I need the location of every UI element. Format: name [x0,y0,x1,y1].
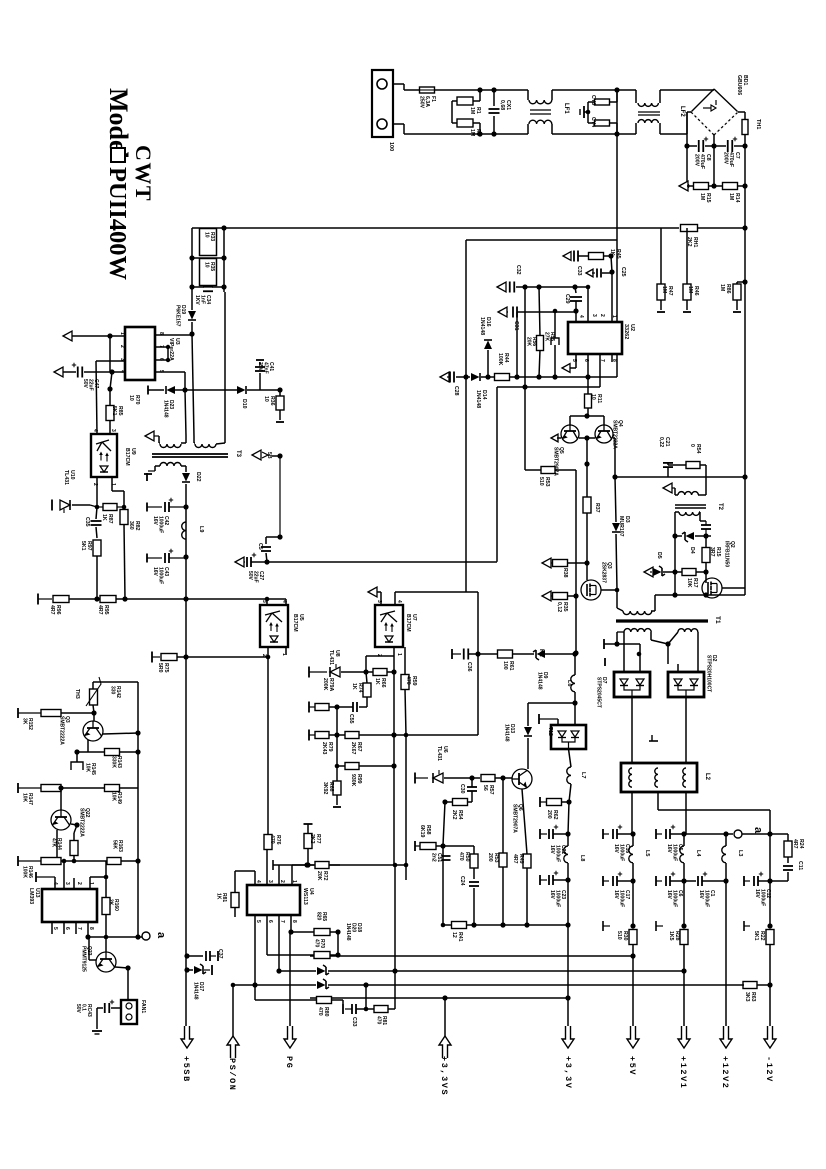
junction [584,461,589,466]
junction [684,183,689,188]
resistor R22 5K1 [766,930,774,945]
svg-text:1: 1 [281,653,287,656]
wire [77,751,105,753]
terminal U6 [414,773,416,784]
wire [526,868,528,925]
wire +5VSB down [185,599,187,1026]
wire U7 pin3 [380,592,382,605]
svg-text:L9: L9 [198,526,204,532]
arrow Q5 emitter [551,434,558,442]
wire [342,1000,344,1004]
wire [553,833,568,835]
resistor R17 10K [682,569,696,576]
wire [451,101,453,123]
wire [557,719,559,725]
transistor Q4 SMBT2222A [595,425,613,443]
capacitor C22 1000uF 16V [548,829,550,839]
svg-text:-12V: -12V [764,1056,774,1083]
wire +5V column [631,792,633,834]
capacitor C33 [573,251,575,262]
wire [539,286,588,288]
junction [166,345,170,349]
capacitor C24 [469,881,479,883]
diode D22 [182,473,190,482]
junction [74,822,79,827]
wire [394,865,396,971]
junction [742,279,747,284]
wire [616,590,618,608]
terminal R96 [37,594,39,605]
wire connector bottom pin [393,123,404,125]
junction [125,965,130,970]
wire [124,524,125,599]
ground earth AC filter [584,111,588,113]
wire U13 pin2 [73,878,75,889]
wire [468,653,478,655]
capacitor C7 470uF 200V [727,140,729,152]
inductor L2 winding 3 [683,768,686,787]
junction [392,968,397,973]
capacitor CX1 [489,108,500,110]
junction [573,308,578,313]
svg-text:U9B17CM: U9B17CM [124,448,136,466]
wire [604,255,611,257]
svg-text:R811K: R811K [215,893,227,902]
svg-text:R741K: R741K [351,683,363,693]
diode D16 1N4148 [484,340,492,349]
wire Q6 base [495,777,512,779]
diode D13 1N4148 [527,703,529,726]
diode D23 1N4148 [166,386,175,394]
wire [683,971,685,1026]
wire [72,504,90,506]
junction [304,862,309,867]
wire [185,466,187,472]
junction [221,225,226,230]
wire [551,90,553,100]
wire [93,681,138,683]
svg-text:R14510K: R14510K [84,763,96,775]
resistor R45 1K [589,253,604,260]
svg-text:6: 6 [267,920,273,923]
junction [58,785,63,790]
wire Q3 collector [87,740,89,752]
resistor R46 1M [683,284,691,300]
wire [575,596,577,653]
svg-text:R540: R540 [689,444,701,454]
svg-text:L6: L6 [566,680,572,686]
svg-text:R79A200K: R79A200K [322,678,334,692]
wire [223,228,225,292]
svg-text:LF1: LF1 [563,103,569,114]
svg-text:R855K1: R855K1 [111,406,123,416]
wire [187,969,193,971]
inductor LF1 top winding [529,100,552,104]
junction [183,654,188,659]
wire [769,944,771,985]
wire [359,734,395,736]
svg-text:+5V: +5V [627,1056,637,1076]
capacitor C5 [261,546,271,548]
junction [221,284,226,289]
wire [734,145,745,147]
junction [404,733,409,738]
wire U2 pin1 column [611,256,612,272]
resistor R74 1K [363,683,371,697]
wire [769,834,771,881]
wire [787,857,789,863]
wire [148,389,164,391]
junction [135,934,140,939]
svg-text:R871K: R871K [101,514,113,524]
wire [212,286,224,288]
resistor R57 56 [481,775,495,782]
wire B+ to bulk caps [744,135,746,146]
junction [522,384,527,389]
wire [186,598,267,600]
svg-text:L5: L5 [644,850,650,856]
wire [96,507,97,519]
junction [681,968,686,973]
wire [177,656,268,658]
wire [393,735,395,865]
junction [107,386,112,391]
transistor Q23 PMMT9125 [96,952,116,972]
wire [337,765,345,767]
terminal R62 [539,797,541,807]
resistor R76 470 [264,835,272,850]
svg-text:C171000uF16V: C171000uF16V [613,890,630,907]
resistor R11 10 [585,394,592,408]
junction [524,922,529,927]
wire [567,925,569,998]
wire [686,112,688,134]
junction [277,387,282,392]
wire [488,376,495,378]
svg-text:U4WS113: U4WS113 [302,888,314,905]
svg-text:C55: C55 [348,714,354,724]
wire [588,101,595,103]
capacitor C12 1000uF 16V [753,876,755,886]
wire U2 pin3 [587,287,589,322]
terminal C23 [539,875,541,885]
wire [614,438,616,477]
wire Q23 emitter [115,967,128,968]
junction [221,255,226,260]
capacitor C11 [783,865,793,867]
junction [391,763,396,768]
resistor R14 1M [723,183,738,190]
svg-text:100: 100 [388,142,394,151]
svg-text:R586K19: R586K19 [419,825,431,838]
wire [93,705,94,713]
wire U5 pin2 [267,646,269,657]
wire Q4 to rail [613,437,615,439]
svg-text:D19P6KE157: D19P6KE157 [174,305,186,327]
svg-text:CY3: CY3 [590,95,596,105]
resistor R1 [457,97,473,105]
svg-text:1: 1 [110,483,116,486]
wire +3,3V column [568,802,569,834]
svg-text:L4: L4 [695,850,701,857]
svg-text:D131N4148: D131N4148 [503,724,515,742]
wire gate drive [586,513,588,563]
svg-text:R153R7: R153R7 [709,547,721,557]
junction [672,533,677,538]
junction [442,995,447,1000]
resistor R56 20K [537,336,544,351]
wire [674,512,676,536]
wire U13 pin4 [54,877,56,889]
svg-text:U233262: U233262 [623,324,635,339]
inductor L8 [564,846,568,863]
wire U4 pin2 [278,865,280,885]
svg-text:R146100K: R146100K [21,866,33,878]
wire [568,562,587,564]
resistor R82 360 [120,510,128,525]
wire [478,653,497,655]
inductor L2 winding 1 [629,768,632,787]
wire [686,146,688,186]
svg-text:D2STPS20H100CT: D2STPS20H100CT [705,655,717,692]
svg-text:R542K2: R542K2 [451,810,463,820]
inductor LF2 bottom winding [638,120,658,123]
wire [623,632,625,672]
wire [61,712,94,714]
op-amp U10 TL431 [60,500,70,513]
svg-text:PG: PG [284,1056,294,1069]
svg-text:R76470: R76470 [269,835,281,845]
svg-text:R142330: R142330 [109,686,121,698]
wire [105,861,107,877]
junction [553,309,558,314]
wire [742,833,770,835]
capacitor C36 [463,649,465,660]
wire U13 pin1 [89,877,91,889]
junction [711,143,716,148]
capacitor C35 [91,520,102,522]
wire Q23 collector [88,937,90,960]
wire [436,845,443,847]
wire [738,185,745,187]
power PS/ON input [227,1036,239,1058]
wire B+ distribution [224,227,679,229]
wire [443,845,474,847]
ground arrow C27 [235,557,244,567]
svg-text:C8470uF200V: C8470uF200V [693,154,711,169]
wire [110,372,112,389]
wire Q2 gate [705,572,707,583]
transistor Q22 SMBT2222A [51,810,71,830]
wire U9 pin2 [96,477,98,507]
junction [630,923,635,928]
wire Vcc to U2 pin7 [497,386,600,388]
core LF2 [638,111,660,113]
svg-text:R21M: R21M [469,129,481,136]
wire [674,572,676,595]
junction [703,592,708,597]
ground tick R22 [743,921,745,931]
resistor R80 470 [317,997,332,1004]
junction [265,597,270,602]
wire to CX1 [493,90,495,106]
junction [584,435,589,440]
wire U9 pin3 [109,420,111,434]
wire Q3 base [93,713,95,721]
wire D7 to L2 [631,697,633,763]
svg-text:L8: L8 [579,855,585,861]
junction [107,333,112,338]
wire Q23 base [105,937,107,952]
junction [266,655,271,660]
junction [672,592,677,597]
junction [630,831,635,836]
transistor Q3 2SK2837 [581,580,601,600]
wire [569,416,571,425]
svg-text:R44100K: R44100K [497,353,509,366]
wire [119,751,138,753]
wire [472,777,480,779]
capacitor C5 1000uF 16V [665,829,667,839]
wire Q2 drain to B+ [722,587,745,589]
junction [334,704,339,709]
junction [586,110,591,115]
wire [366,672,367,683]
wire [330,954,338,956]
svg-text:U13LM393: U13LM393 [28,888,40,904]
wire [744,146,746,186]
junction [91,710,96,715]
junction [552,374,557,379]
wire +3,3V sense [310,997,568,999]
junction [572,700,577,705]
wire [758,880,770,882]
opto U9 B17CM [91,434,117,477]
wire [341,671,366,673]
connector J1 AC inlet [372,70,393,137]
svg-text:C5: C5 [257,543,263,550]
wire [481,376,488,378]
inductor T3 primary winding [160,444,181,448]
svg-text:Q2IRFB11N50: Q2IRFB11N50 [723,541,735,567]
wire U4 pin5 [254,915,256,985]
arrow R38 [542,558,551,568]
wire [670,880,684,882]
wire [89,959,96,961]
wire [473,868,475,879]
wire [502,867,504,925]
svg-text:D4: D4 [689,547,695,554]
svg-text:C36: C36 [466,662,472,672]
junction [491,87,496,92]
diode D7 STPS2045CT [614,672,650,697]
wire [617,880,633,882]
wire +12V column [685,792,687,834]
svg-text:TH3: TH3 [74,689,80,699]
junction [742,225,747,230]
capacitor C31 [512,307,514,318]
svg-text:BD1GBU606: BD1GBU606 [736,75,748,95]
svg-text:+3,3V: +3,3V [563,1056,573,1090]
wire [109,389,111,406]
resistor R147 10K [17,783,19,793]
wire PG [289,932,291,1026]
inductor T2 top winding [678,492,698,495]
wire [74,825,77,833]
wire [683,834,685,846]
wire U3 pin8 [155,334,192,336]
arrow input U3 pin4 [54,367,63,377]
capacitor C6 1000uF 16V [665,876,667,886]
wire [602,272,612,274]
junction [104,935,109,940]
junction [109,369,114,374]
wire [359,765,394,767]
junction [573,593,578,598]
svg-text:C32: C32 [515,265,521,275]
wire [677,664,679,672]
wire [387,671,394,673]
svg-text:C61000uF16V: C61000uF16V [666,890,683,907]
svg-text:R81470: R81470 [375,1016,387,1025]
svg-text:R16356K: R16356K [111,840,123,852]
diode D4 [682,532,694,542]
svg-text:+12V1: +12V1 [678,1056,688,1090]
wire [611,272,613,322]
svg-text:R141M: R141M [728,193,740,203]
svg-text:3: 3 [591,314,597,317]
svg-text:R975K1: R975K1 [80,541,92,551]
junction [72,859,77,864]
wire U3 pin5 [155,371,185,373]
wire [683,944,685,971]
wire [660,300,662,310]
junction [305,862,310,867]
wire Q22 base [60,788,62,810]
core T3 [152,453,228,455]
wire [356,1008,366,1010]
svg-text:R151M: R151M [699,193,711,203]
junction [536,284,541,289]
terminal C16 [602,829,604,839]
resistor R41 12 [452,922,467,929]
wire [394,971,396,1009]
wire [266,536,280,538]
wire [184,372,186,390]
junction [742,143,747,148]
capacitor C51 2n2 [442,855,451,857]
junction [363,982,368,987]
junction [586,285,591,290]
diode D9 1N4148 [533,650,545,660]
wire -12V sense [328,984,744,986]
svg-text:4: 4 [281,600,287,603]
wire [388,1008,395,1010]
wire [632,956,634,1026]
wire [405,689,406,735]
svg-text:R14710K: R14710K [21,793,33,805]
svg-text:L3: L3 [737,850,743,856]
wire [663,571,675,573]
svg-text:1: 1 [88,882,94,885]
svg-text:R37: R37 [594,503,600,513]
junction [335,952,340,957]
wire [192,227,224,229]
svg-text:C4147nF25V: C4147nF25V [257,362,274,374]
resistor R54 [686,462,700,469]
junction [723,878,728,883]
inductor LF2 top winding [638,103,658,106]
